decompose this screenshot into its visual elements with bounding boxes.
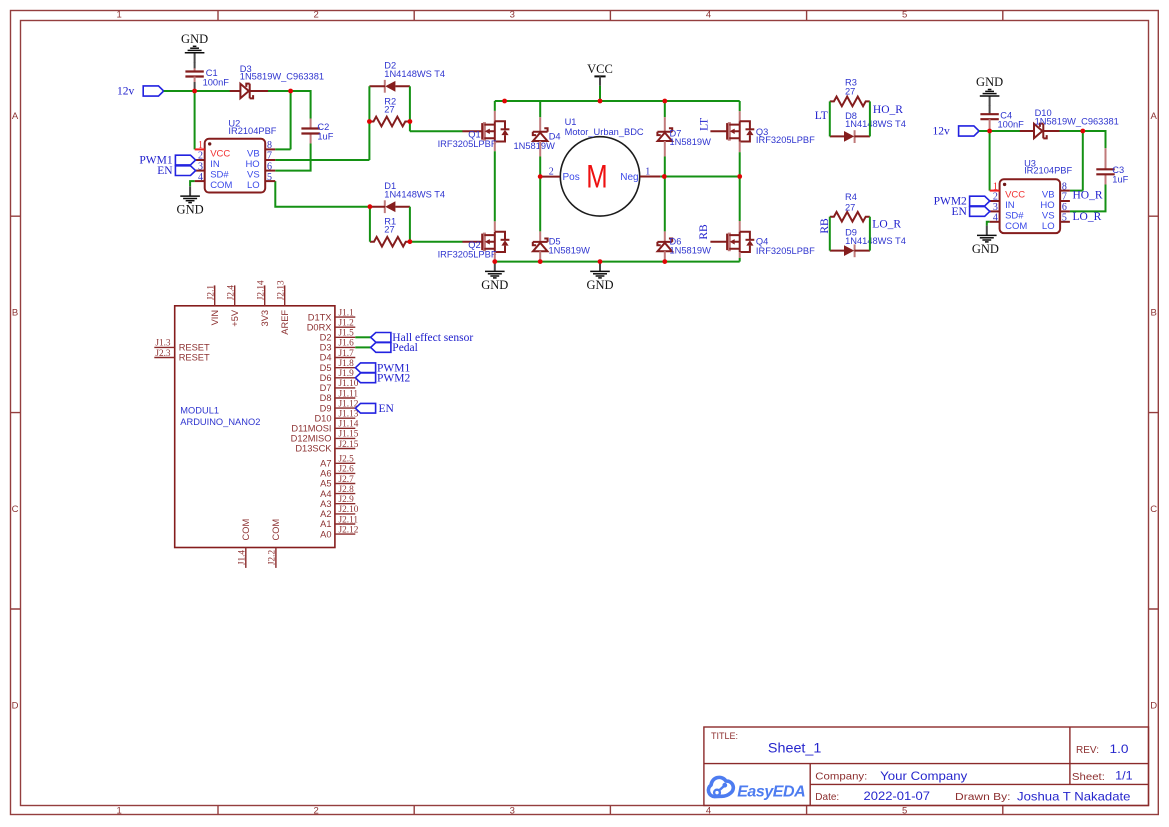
- wire COM to GND6: [987, 222, 990, 226]
- svg-text:Neg: Neg: [620, 172, 638, 183]
- svg-text:IN: IN: [1005, 200, 1015, 211]
- svg-text:D9: D9: [320, 403, 332, 413]
- net port PWM1 at D5: [355, 362, 410, 374]
- svg-text:C: C: [1150, 504, 1157, 515]
- svg-text:LO_R: LO_R: [872, 219, 901, 231]
- svg-text:27: 27: [384, 225, 394, 235]
- svg-text:IRF3205LPBF: IRF3205LPBF: [438, 250, 497, 260]
- svg-text:1: 1: [993, 181, 998, 192]
- MODUL1 pin J1.12 D9 (right): [335, 407, 355, 409]
- title block outline: [704, 727, 1149, 806]
- svg-text:2022-01-07: 2022-01-07: [864, 789, 931, 803]
- svg-text:8: 8: [1062, 181, 1067, 192]
- MODUL1 pin J1.5 D2 (right): [335, 336, 355, 338]
- svg-text:HO: HO: [1040, 200, 1054, 211]
- diode D5 1N5819W: [533, 237, 590, 256]
- svg-text:1uF: 1uF: [1112, 174, 1128, 184]
- svg-text:VS: VS: [1042, 211, 1055, 222]
- MODUL1 pin J1.11 D8 (right): [335, 397, 355, 399]
- svg-text:EN: EN: [951, 206, 967, 218]
- svg-text:VS: VS: [247, 170, 260, 181]
- svg-text:6: 6: [1062, 202, 1067, 213]
- svg-text:J2.12: J2.12: [339, 525, 359, 535]
- resistor R4 27: [830, 192, 870, 221]
- U2 pin 1 VCC (red): [195, 148, 205, 150]
- svg-text:GND: GND: [976, 75, 1003, 89]
- wire junction to C2 top: [291, 91, 311, 119]
- svg-text:IRF3205LPBF: IRF3205LPBF: [756, 246, 815, 256]
- svg-text:J1.11: J1.11: [339, 389, 359, 399]
- junction D10/VB: [1080, 129, 1085, 134]
- svg-text:2: 2: [549, 167, 554, 178]
- transistor Q4 IRF3205LPBF: [710, 232, 815, 256]
- svg-text:C3: C3: [1112, 165, 1124, 175]
- wire VCC column to U3 pin1: [989, 131, 991, 191]
- svg-text:J2.9: J2.9: [339, 495, 355, 505]
- svg-text:GND: GND: [972, 242, 999, 256]
- wire R4/D9 right vertical: [869, 217, 871, 251]
- power flag VCC: [587, 62, 613, 86]
- op-amp driver U2 IR2104PBF: [195, 119, 277, 193]
- svg-text:IN: IN: [210, 159, 220, 170]
- svg-text:1N5819W: 1N5819W: [514, 141, 556, 151]
- ground GND6 below U3: [972, 226, 999, 256]
- svg-text:A1: A1: [320, 519, 331, 529]
- svg-text:1N4148WS T4: 1N4148WS T4: [384, 69, 445, 79]
- svg-text:1: 1: [117, 806, 122, 817]
- svg-text:Sheet:: Sheet:: [1072, 772, 1105, 783]
- diode D4 1N5819W: [514, 128, 561, 151]
- svg-text:GND: GND: [181, 32, 208, 46]
- MODUL1 pin J1.9 D6 (right): [335, 377, 355, 379]
- transistor Q3 IRF3205LPBF: [710, 121, 815, 145]
- diode D1 1N4148WS T4: [370, 181, 445, 213]
- svg-text:PWM2: PWM2: [377, 373, 410, 385]
- diode D3 1N5819W_C963381: [230, 64, 324, 98]
- resistor R3 27: [830, 78, 870, 107]
- svg-text:1N5819W: 1N5819W: [670, 245, 712, 255]
- wire Q1 drain: [494, 101, 496, 111]
- svg-text:2: 2: [313, 10, 318, 21]
- wire Q4 source to ground rail: [739, 252, 741, 262]
- svg-text:RESET: RESET: [179, 343, 210, 353]
- MODUL1 pin J2.7 A5 (right): [335, 483, 355, 485]
- svg-text:1/1: 1/1: [1115, 769, 1133, 783]
- svg-text:1N5819W: 1N5819W: [549, 245, 591, 255]
- svg-text:D5: D5: [320, 363, 332, 373]
- MODUL1 pin J2.2 COM (bottom): [275, 548, 277, 568]
- MODUL1 pin J2.6 A6 (right): [335, 472, 355, 474]
- svg-text:J2.14: J2.14: [256, 280, 266, 300]
- frame column ticks bottom: [218, 806, 1003, 815]
- frame column ticks top: [218, 11, 1003, 21]
- svg-text:J2.15: J2.15: [339, 440, 359, 450]
- svg-text:VCC: VCC: [210, 148, 230, 159]
- svg-text:2: 2: [198, 151, 203, 162]
- wire D2/R2 right vertical: [409, 86, 411, 131]
- wire D3 to Pedal flag: [355, 346, 370, 348]
- svg-text:A2: A2: [320, 509, 331, 519]
- wire Pos node down to D5: [539, 177, 541, 242]
- svg-text:1: 1: [198, 140, 203, 151]
- svg-text:J2.3: J2.3: [155, 349, 171, 359]
- MODUL1 pin J1.8 D5 (right): [335, 367, 355, 369]
- svg-text:3: 3: [510, 10, 515, 21]
- MODUL1 pin J2.10 A2 (right): [335, 513, 355, 515]
- resistor R1 27: [370, 217, 410, 247]
- svg-text:AREF: AREF: [280, 310, 290, 335]
- U3 pin 1 VCC (red): [990, 190, 1000, 192]
- svg-text:27: 27: [845, 87, 855, 97]
- svg-text:J2.11: J2.11: [339, 515, 359, 525]
- svg-text:J1.6: J1.6: [339, 339, 355, 349]
- ground GND4 below bridge: [586, 262, 613, 292]
- svg-text:D13SCK: D13SCK: [295, 444, 332, 454]
- svg-text:J1.2: J1.2: [339, 319, 355, 329]
- svg-text:J2.1: J2.1: [206, 285, 216, 301]
- svg-text:VB: VB: [1042, 190, 1055, 201]
- diode D7 1N5819W: [657, 128, 711, 147]
- svg-text:Sheet_1: Sheet_1: [768, 741, 822, 756]
- wire LO to D1/R1 network: [275, 181, 370, 207]
- U3 pin 5 LO: [1060, 221, 1070, 223]
- svg-text:4: 4: [993, 213, 998, 224]
- wire VB column: [275, 91, 290, 149]
- junction motor Pos: [538, 174, 543, 179]
- frame row labels left: [12, 111, 19, 711]
- wire Q3 source to Neg: [739, 142, 741, 177]
- junction ground rail at GND: [598, 259, 603, 264]
- wire VB column: [1070, 131, 1083, 191]
- module MODUL1 ARDUINO_NANO2: [154, 280, 358, 568]
- net port PWM1 into U2: [139, 155, 195, 167]
- U2 pin 8 VB: [265, 148, 275, 150]
- svg-text:U1: U1: [565, 117, 577, 127]
- svg-text:RB: RB: [698, 224, 710, 240]
- svg-text:7: 7: [267, 151, 272, 162]
- svg-text:5: 5: [902, 10, 907, 21]
- svg-text:Pos: Pos: [563, 172, 580, 183]
- ground GND2 below U2: [177, 186, 204, 216]
- MODUL1 pin J2.5 A7 (right): [335, 462, 355, 464]
- capacitor C4: [980, 111, 1024, 131]
- svg-text:A4: A4: [320, 489, 331, 499]
- svg-text:27: 27: [384, 104, 394, 114]
- wire R3/D8 left vertical: [829, 101, 831, 136]
- wire ground rail: [495, 261, 740, 263]
- U2 pin 4 COM: [195, 180, 205, 182]
- MODUL1 pin J2.3 RESET (left): [154, 357, 174, 359]
- svg-text:D7: D7: [320, 383, 332, 393]
- svg-text:J2.6: J2.6: [339, 465, 355, 475]
- net port PWM2 at D6: [355, 373, 410, 385]
- svg-text:B: B: [12, 308, 18, 319]
- svg-text:COM: COM: [241, 519, 251, 541]
- svg-text:J2.13: J2.13: [276, 280, 286, 300]
- svg-text:D3: D3: [320, 343, 332, 353]
- svg-text:COM: COM: [271, 519, 281, 541]
- U2 pin 2 IN: [195, 159, 205, 161]
- wire R2 to Q1 gate: [410, 130, 463, 132]
- svg-text:2: 2: [993, 192, 998, 203]
- U3 pin 4 COM: [990, 221, 1000, 223]
- svg-text:LT: LT: [699, 118, 711, 131]
- wire D1/R1 left vertical: [369, 207, 371, 242]
- svg-text:C: C: [12, 504, 19, 515]
- frame row ticks right: [1149, 216, 1159, 609]
- svg-text:LO_R: LO_R: [1073, 211, 1102, 223]
- svg-text:LO: LO: [247, 180, 260, 191]
- wire VCC top rail: [495, 100, 740, 102]
- wire D2/R2 left vertical to HO: [368, 86, 370, 160]
- svg-text:6: 6: [267, 161, 272, 172]
- svg-text:Your Company: Your Company: [880, 769, 967, 783]
- wire 12v to junction: [164, 90, 195, 92]
- svg-text:A5: A5: [320, 479, 331, 489]
- frame column labels bottom: [117, 806, 908, 817]
- svg-text:3: 3: [993, 202, 998, 213]
- svg-text:100nF: 100nF: [203, 77, 230, 87]
- U3 pin 8 VB: [1060, 190, 1070, 192]
- svg-text:2: 2: [313, 806, 318, 817]
- svg-text:1.0: 1.0: [1110, 742, 1129, 756]
- svg-text:12v: 12v: [933, 126, 951, 138]
- svg-text:RB: RB: [819, 218, 831, 234]
- junction VCC at rail: [598, 99, 603, 104]
- svg-text:12v: 12v: [117, 86, 135, 98]
- motor U1 Motor_Urban_BDC: [540, 117, 660, 216]
- svg-text:M: M: [586, 159, 607, 195]
- U2 pin 7 HO: [265, 159, 275, 161]
- U3 pin 7 HO: [1060, 200, 1070, 202]
- resistor R2 27: [369, 96, 409, 126]
- svg-text:J1.10: J1.10: [339, 379, 359, 389]
- svg-text:IRF3205LPBF: IRF3205LPBF: [756, 135, 815, 145]
- svg-text:VB: VB: [247, 148, 260, 159]
- svg-text:Company:: Company:: [815, 772, 867, 783]
- svg-text:HO_R: HO_R: [873, 104, 903, 116]
- U3 pin 2 IN: [990, 200, 1000, 202]
- MODUL1 pin J1.3 RESET (left): [154, 346, 174, 348]
- U3 pin 3 SD#: [990, 210, 1000, 212]
- wire D5 bottom pin: [539, 251, 541, 261]
- wire Q2 source to ground rail: [494, 252, 496, 262]
- svg-text:A7: A7: [320, 459, 331, 469]
- svg-text:VIN: VIN: [210, 310, 220, 326]
- wire D6 bottom pin: [664, 251, 666, 261]
- svg-text:D1TX: D1TX: [308, 312, 332, 322]
- U1 pin 2 Pos: [540, 176, 560, 178]
- svg-text:J1.4: J1.4: [237, 550, 247, 566]
- svg-text:C2: C2: [317, 122, 329, 132]
- MODUL1 pin J2.4 +5V (top): [234, 285, 236, 305]
- svg-text:VCC: VCC: [1005, 190, 1025, 201]
- svg-text:Q4: Q4: [756, 236, 768, 246]
- junction R2 right: [408, 119, 413, 124]
- wire 12v to junction: [979, 130, 990, 132]
- svg-text:A: A: [12, 111, 19, 122]
- svg-text:GND: GND: [481, 278, 508, 292]
- svg-text:D: D: [12, 701, 19, 712]
- junction Neg at Q3/Q4: [737, 174, 742, 179]
- svg-text:J1.14: J1.14: [339, 420, 359, 430]
- svg-text:B: B: [1151, 308, 1157, 319]
- junction ground rail at D5: [538, 259, 543, 264]
- svg-text:D10: D10: [314, 413, 331, 423]
- svg-text:IR2104PBF: IR2104PBF: [228, 126, 276, 136]
- diode D2 1N4148WS T4: [369, 61, 445, 93]
- svg-text:REV:: REV:: [1076, 745, 1099, 756]
- svg-text:Motor_Urban_BDC: Motor_Urban_BDC: [565, 127, 644, 137]
- junction D7 at rail: [662, 99, 667, 104]
- MODUL1 pin J1.15 D12MISO (right): [335, 437, 355, 439]
- U2 pin 5 LO: [265, 180, 275, 182]
- svg-text:HO: HO: [245, 159, 259, 170]
- svg-text:COM: COM: [1005, 221, 1027, 232]
- wire D7 bottom pin to Neg: [664, 141, 666, 177]
- svg-text:1N4148WS T4: 1N4148WS T4: [845, 119, 906, 129]
- wire Neg down to D6: [664, 177, 666, 242]
- net port EN at D9: [355, 403, 394, 415]
- svg-text:4: 4: [706, 806, 711, 817]
- svg-text:HO_R: HO_R: [1073, 190, 1103, 202]
- svg-text:7: 7: [1062, 192, 1067, 203]
- junction R1 right: [408, 239, 413, 244]
- svg-text:D2: D2: [320, 333, 332, 343]
- svg-text:5: 5: [902, 806, 907, 817]
- junction D3/VB: [288, 89, 293, 94]
- wire junction to D10 anode: [990, 130, 1021, 132]
- svg-text:LO: LO: [1042, 221, 1055, 232]
- svg-text:1: 1: [117, 10, 122, 21]
- frame row labels right: [1150, 111, 1157, 711]
- svg-text:Date:: Date:: [815, 792, 839, 803]
- svg-text:J1.7: J1.7: [339, 349, 355, 359]
- MODUL1 pin J2.1 VIN (top): [214, 285, 216, 305]
- wire D7 top pin: [664, 101, 666, 132]
- diode D9 1N4148WS T4: [830, 227, 906, 257]
- wire VCC stub to rail: [599, 86, 601, 101]
- power flag GND5 above C4: [976, 75, 1003, 114]
- wire D10 cathode to junction: [1060, 130, 1083, 132]
- svg-text:J2.10: J2.10: [339, 505, 359, 515]
- capacitor C3: [1096, 148, 1128, 184]
- svg-text:1N5819W: 1N5819W: [670, 137, 712, 147]
- svg-text:3: 3: [510, 806, 515, 817]
- svg-text:J1.8: J1.8: [339, 359, 355, 369]
- svg-text:RESET: RESET: [179, 353, 210, 363]
- wire junction to C3 top: [1083, 131, 1106, 148]
- junction top rail joint: [502, 99, 507, 104]
- svg-text:1: 1: [645, 167, 650, 178]
- svg-text:A: A: [1151, 111, 1158, 122]
- svg-text:SD#: SD#: [1005, 211, 1024, 222]
- wire Q3 drain: [739, 101, 741, 121]
- wire D3 cathode to junction: [268, 90, 291, 92]
- transistor Q2 IRF3205LPBF: [438, 232, 510, 260]
- svg-text:J2.7: J2.7: [339, 475, 355, 485]
- MODUL1 pin J2.13 AREF (top): [284, 285, 286, 305]
- svg-text:J2.4: J2.4: [226, 285, 236, 301]
- MODUL1 pin J2.8 A4 (right): [335, 493, 355, 495]
- svg-text:Drawn By:: Drawn By:: [955, 792, 1011, 803]
- svg-text:J1.3: J1.3: [155, 339, 171, 349]
- EasyEDA logo: [708, 777, 805, 800]
- svg-text:D4: D4: [320, 353, 332, 363]
- junction Neg at motor pin: [662, 174, 667, 179]
- svg-text:LT: LT: [815, 110, 828, 122]
- transistor Q1 IRF3205LPBF: [438, 121, 510, 149]
- junction 12v/C4: [987, 129, 992, 134]
- svg-text:IR2104PBF: IR2104PBF: [1024, 165, 1072, 175]
- MODUL1 pin J1.13 D10 (right): [335, 417, 355, 419]
- wire Q1 source to Q2 drain: [494, 142, 496, 232]
- MODUL1 pin J1.14 D11MOSI (right): [335, 427, 355, 429]
- MODUL1 pin J1.6 D3 (right): [335, 346, 355, 348]
- svg-text:1N5819W_C963381: 1N5819W_C963381: [240, 71, 324, 81]
- capacitor C1: [185, 68, 229, 90]
- U3 pin 6 VS: [1060, 210, 1070, 212]
- wire R3/D8 right vertical: [869, 101, 871, 136]
- op-amp driver U3 IR2104PBF: [990, 158, 1073, 233]
- svg-text:IRF3205LPBF: IRF3205LPBF: [438, 139, 497, 149]
- wire R1 to Q2 gate: [410, 241, 463, 243]
- svg-text:J2.5: J2.5: [339, 455, 355, 465]
- svg-text:3V3: 3V3: [260, 310, 270, 327]
- svg-text:A3: A3: [320, 499, 331, 509]
- MODUL1 pin J2.14 3V3 (top): [264, 285, 266, 305]
- wire HO to D2/R2 network: [275, 159, 369, 161]
- net port EN into U3: [951, 206, 989, 218]
- junction R2 left: [367, 119, 372, 124]
- svg-text:5: 5: [1062, 213, 1067, 224]
- MODUL1 pin J2.9 A3 (right): [335, 503, 355, 505]
- diode D6 1N5819W: [657, 237, 711, 256]
- svg-text:D11MOSI: D11MOSI: [291, 424, 331, 434]
- svg-text:4: 4: [198, 172, 203, 183]
- MODUL1 pin J1.10 D7 (right): [335, 387, 355, 389]
- MODUL1 pin J1.2 D0RX (right): [335, 326, 355, 328]
- svg-text:R4: R4: [845, 192, 857, 202]
- wire D4 top pin: [539, 101, 541, 132]
- wire D1/R1 right vertical: [409, 207, 411, 242]
- capacitor C2: [301, 119, 333, 144]
- net port 12v (right): [933, 126, 980, 138]
- svg-text:3: 3: [198, 161, 203, 172]
- diode D8 1N4148WS T4: [830, 111, 906, 143]
- svg-text:EasyEDA: EasyEDA: [737, 783, 806, 800]
- wire motor Neg to Q3/Q4 column: [660, 176, 739, 178]
- svg-text:A0: A0: [320, 529, 331, 539]
- svg-text:GND: GND: [177, 203, 204, 217]
- wire D4 bottom pin to Pos node: [539, 141, 541, 177]
- svg-text:J1.5: J1.5: [339, 329, 355, 339]
- svg-text:SD#: SD#: [210, 170, 229, 181]
- svg-text:Pedal: Pedal: [392, 342, 418, 354]
- svg-text:Joshua T Nakadate: Joshua T Nakadate: [1017, 789, 1131, 803]
- U2 pin 6 VS: [265, 170, 275, 172]
- svg-text:4: 4: [706, 10, 711, 21]
- svg-text:27: 27: [845, 202, 855, 212]
- U2 pin 3 SD#: [195, 170, 205, 172]
- wire R4/D9 left vertical: [829, 217, 831, 251]
- svg-text:D6: D6: [320, 373, 332, 383]
- junction 12v/C1: [192, 89, 197, 94]
- MODUL1 pin J2.15 D13SCK (right): [335, 448, 355, 450]
- svg-text:TITLE:: TITLE:: [711, 731, 738, 741]
- frame row ticks left: [11, 216, 21, 609]
- net port Hall effect sensor: [371, 332, 474, 344]
